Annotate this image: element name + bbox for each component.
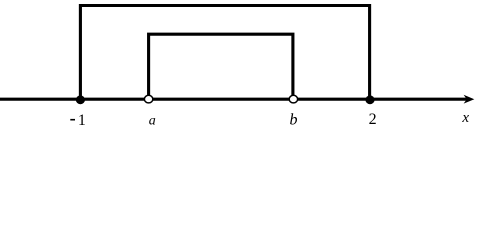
svg-text:2: 2 [369, 111, 377, 128]
svg-text:b: b [290, 111, 298, 128]
outer interval bracket from -1 to 2 [80, 6, 369, 100]
svg-text:x: x [461, 110, 469, 126]
svg-text:1: 1 [78, 112, 86, 129]
filled point at 2 [365, 95, 374, 104]
svg-text:a: a [149, 113, 156, 128]
filled point at -1 [76, 95, 85, 104]
minus sign of label -1 [70, 119, 75, 121]
open point at a [144, 95, 152, 103]
number-line axis [0, 98, 467, 101]
inner interval bracket from a to b [149, 34, 293, 97]
axis arrowhead [464, 95, 475, 104]
open point at b [289, 95, 297, 103]
